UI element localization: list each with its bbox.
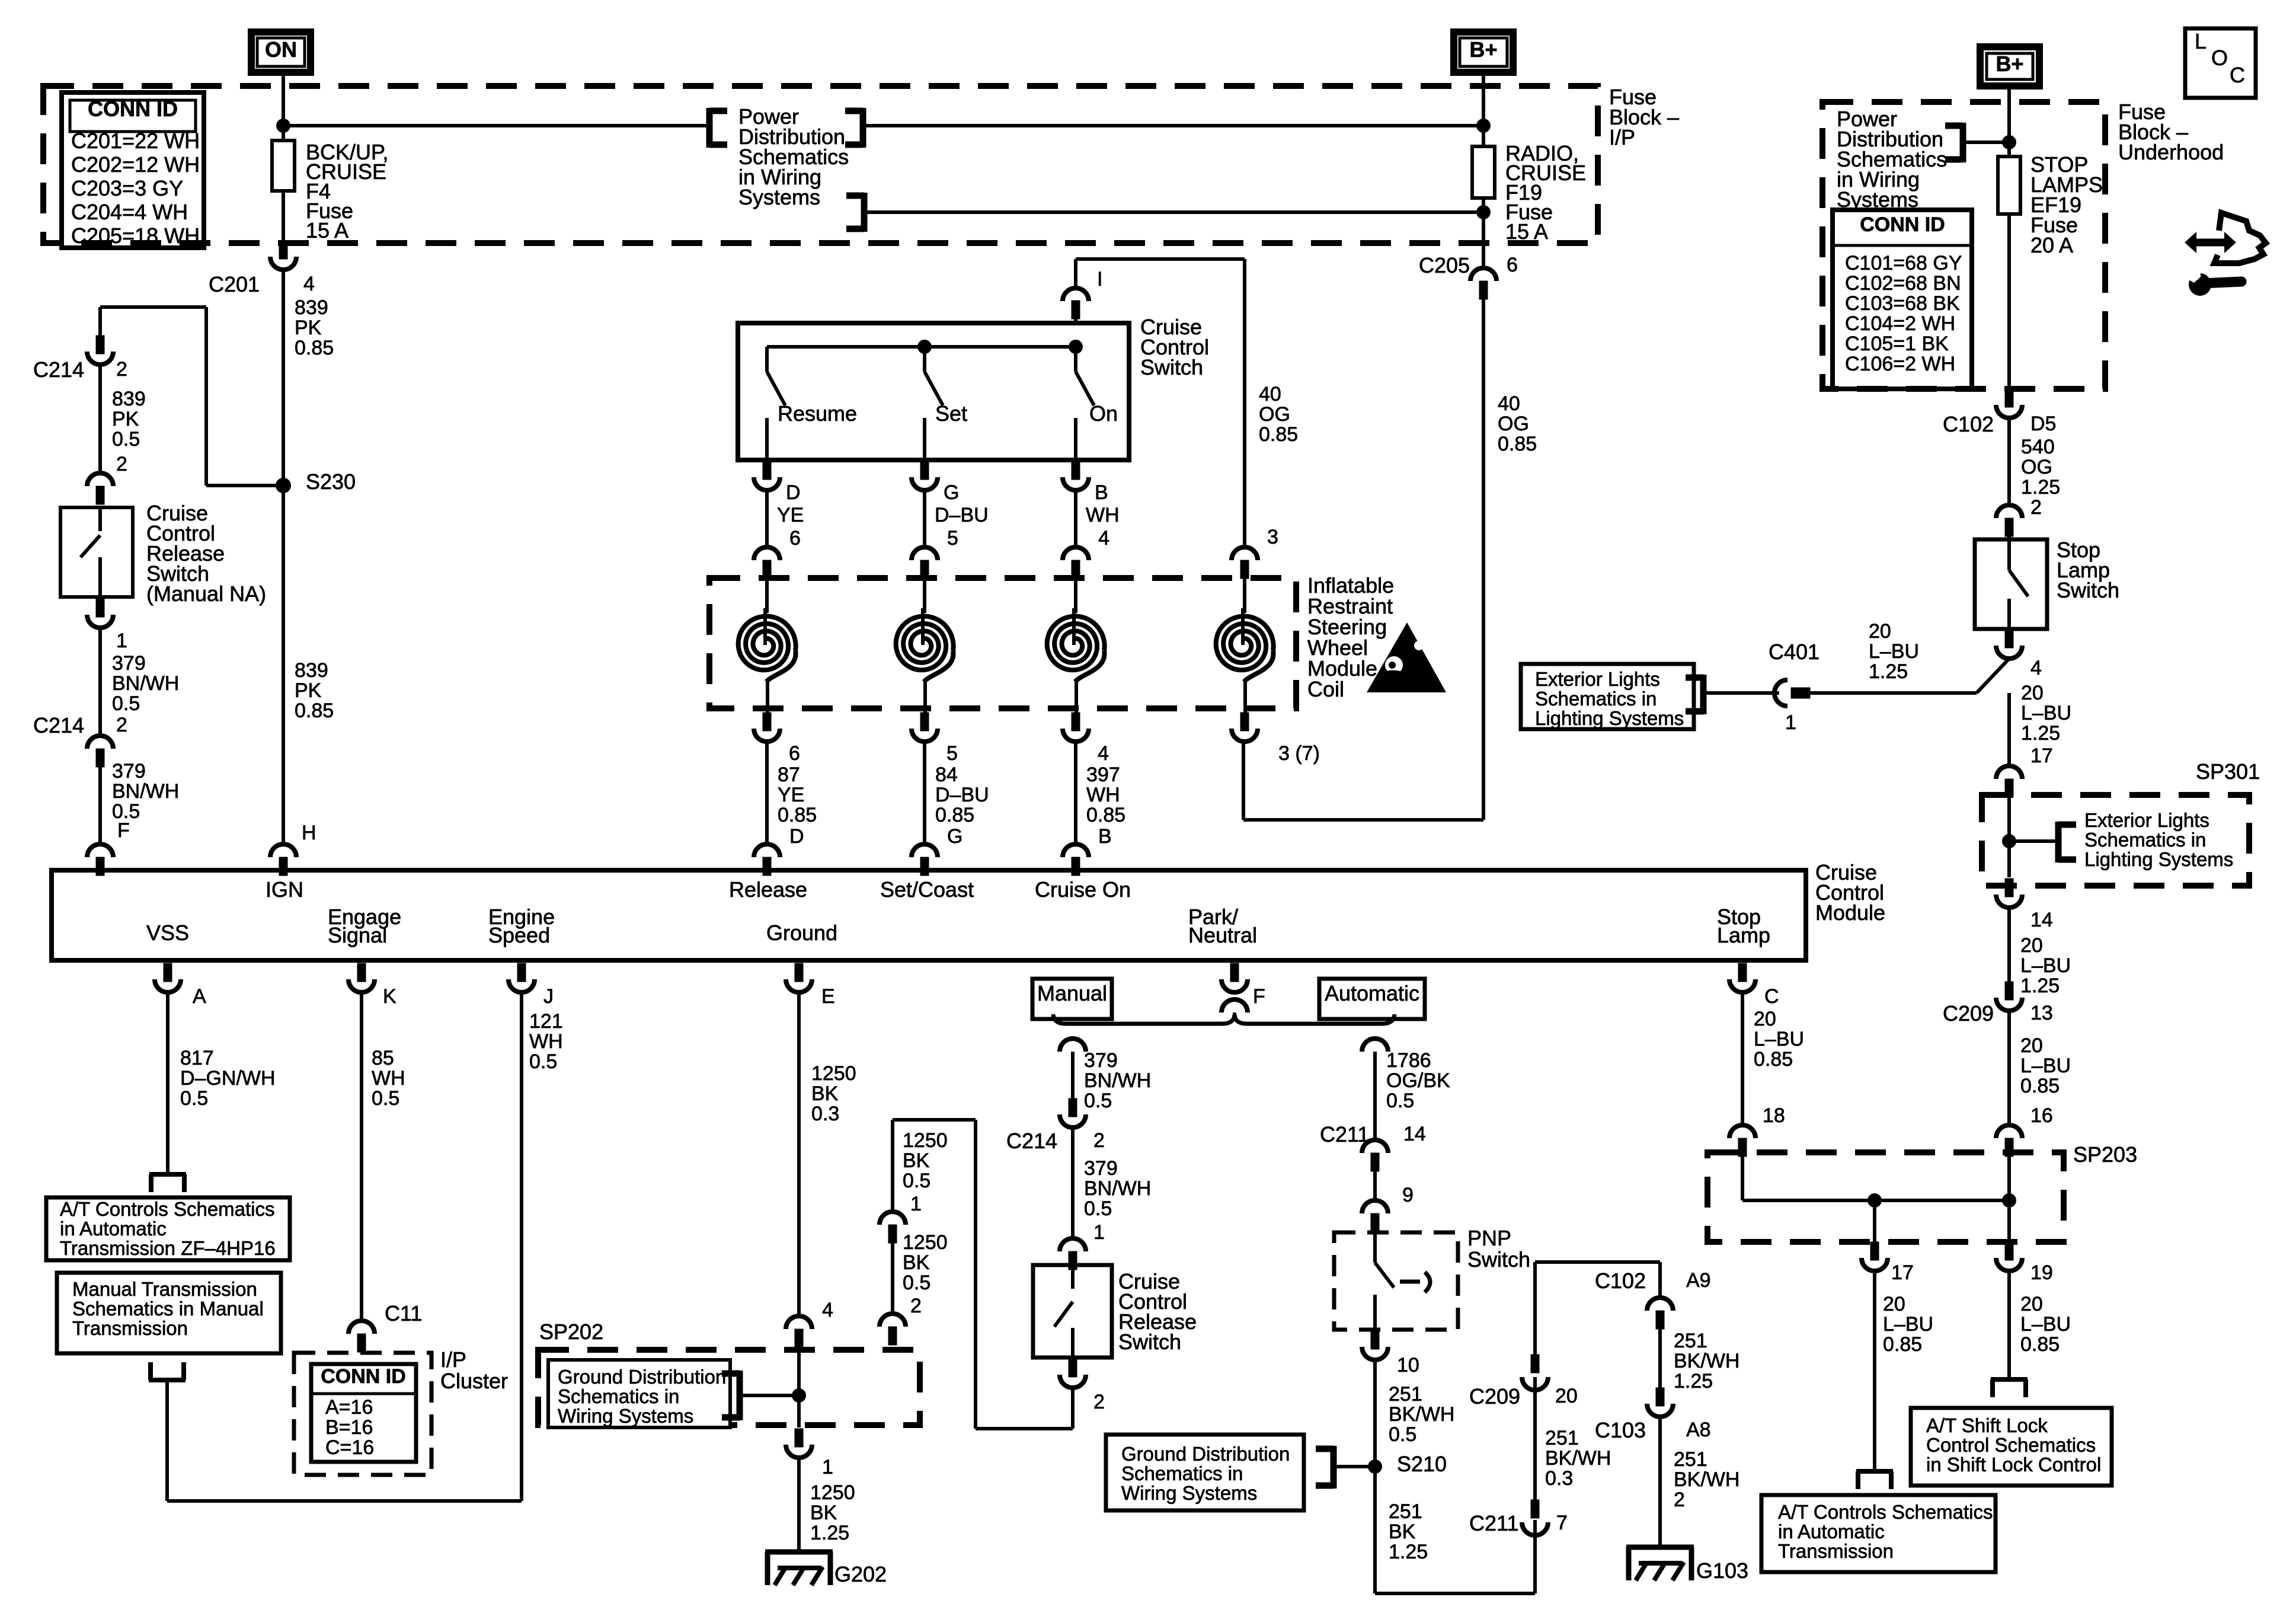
svg-text:SP203: SP203: [2073, 1142, 2137, 1167]
svg-text:Neutral: Neutral: [1188, 923, 1257, 947]
svg-text:C: C: [1764, 985, 1779, 1008]
svg-text:Switch: Switch: [1140, 355, 1203, 379]
svg-text:in Automatic: in Automatic: [1778, 1521, 1885, 1542]
svg-text:C204=4 WH: C204=4 WH: [71, 200, 188, 224]
svg-text:1250: 1250: [811, 1062, 856, 1085]
svg-text:251: 251: [1674, 1330, 1707, 1352]
svg-text:C106=2 WH: C106=2 WH: [1845, 353, 1955, 375]
svg-text:251: 251: [1674, 1448, 1707, 1471]
svg-text:(Manual NA): (Manual NA): [146, 582, 266, 606]
svg-text:C202=12 WH: C202=12 WH: [71, 152, 200, 177]
svg-text:C205: C205: [1419, 253, 1470, 277]
svg-text:L–BU: L–BU: [1869, 640, 1919, 663]
svg-text:Switch: Switch: [1118, 1330, 1181, 1354]
svg-text:D–GN/WH: D–GN/WH: [180, 1067, 276, 1090]
svg-text:20: 20: [2020, 1034, 2043, 1057]
svg-text:G: G: [947, 825, 962, 848]
svg-text:C104=2 WH: C104=2 WH: [1845, 312, 1955, 335]
svg-text:I/P: I/P: [1609, 125, 1635, 149]
svg-text:L–BU: L–BU: [2020, 1313, 2071, 1336]
svg-text:4: 4: [822, 1299, 833, 1321]
svg-text:20: 20: [1869, 620, 1891, 643]
svg-text:Automatic: Automatic: [1325, 981, 1419, 1005]
svg-text:BN/WH: BN/WH: [1084, 1177, 1151, 1200]
svg-text:85: 85: [372, 1047, 394, 1069]
svg-text:6: 6: [789, 527, 801, 550]
svg-text:C101=68 GY: C101=68 GY: [1845, 252, 1962, 274]
svg-text:1.25: 1.25: [1674, 1370, 1713, 1392]
svg-text:251: 251: [1389, 1500, 1422, 1523]
svg-text:397: 397: [1086, 764, 1120, 786]
svg-text:0.5: 0.5: [180, 1087, 208, 1110]
svg-text:4: 4: [303, 273, 315, 295]
svg-text:0.85: 0.85: [778, 804, 817, 826]
svg-text:C=16: C=16: [325, 1436, 374, 1459]
svg-text:F: F: [1253, 985, 1265, 1008]
svg-text:C211: C211: [1469, 1511, 1518, 1535]
svg-text:0.5: 0.5: [1386, 1090, 1414, 1112]
svg-text:15 A: 15 A: [306, 218, 348, 242]
svg-text:OG/BK: OG/BK: [1386, 1069, 1450, 1092]
svg-text:Set: Set: [935, 401, 967, 426]
svg-text:in Shift Lock Control: in Shift Lock Control: [1926, 1454, 2101, 1475]
svg-text:14: 14: [2030, 909, 2053, 931]
svg-text:1: 1: [910, 1193, 922, 1215]
svg-text:Ground Distribution: Ground Distribution: [558, 1366, 726, 1388]
svg-text:1786: 1786: [1386, 1049, 1431, 1072]
svg-text:6: 6: [789, 742, 800, 765]
svg-text:Speed: Speed: [488, 923, 550, 947]
svg-text:G: G: [944, 481, 959, 504]
svg-text:839: 839: [295, 659, 328, 682]
svg-text:PK: PK: [112, 408, 139, 430]
svg-text:18: 18: [1763, 1104, 1785, 1127]
svg-text:0.5: 0.5: [372, 1087, 399, 1110]
svg-text:0.5: 0.5: [112, 692, 140, 715]
svg-text:O: O: [2211, 46, 2228, 70]
svg-text:17: 17: [2030, 745, 2053, 767]
svg-text:40: 40: [1259, 383, 1281, 405]
svg-text:C214: C214: [33, 357, 84, 382]
svg-text:0.85: 0.85: [295, 700, 334, 722]
svg-text:20 A: 20 A: [2030, 233, 2073, 257]
svg-text:Underhood: Underhood: [2118, 140, 2224, 164]
svg-text:0.85: 0.85: [1883, 1333, 1922, 1356]
svg-text:2: 2: [1093, 1391, 1105, 1413]
svg-text:839: 839: [112, 388, 146, 410]
svg-text:Schematics in: Schematics in: [1535, 688, 1657, 710]
svg-text:Lamp: Lamp: [1717, 923, 1770, 947]
svg-text:BK/WH: BK/WH: [1674, 1468, 1739, 1491]
svg-text:YE: YE: [777, 504, 804, 526]
svg-text:251: 251: [1389, 1383, 1422, 1406]
svg-text:L–BU: L–BU: [2021, 702, 2071, 724]
svg-text:C201=22 WH: C201=22 WH: [71, 129, 200, 153]
svg-text:C102=68 BN: C102=68 BN: [1845, 272, 1961, 295]
svg-text:Manual Transmission: Manual Transmission: [72, 1278, 257, 1300]
svg-text:0.3: 0.3: [1545, 1467, 1573, 1490]
svg-text:Schematics in: Schematics in: [558, 1385, 679, 1407]
svg-text:H: H: [302, 822, 316, 844]
svg-text:Cruise On: Cruise On: [1035, 877, 1131, 902]
svg-text:Transmission: Transmission: [72, 1317, 188, 1339]
svg-text:PK: PK: [295, 317, 322, 339]
svg-text:84: 84: [935, 764, 958, 786]
svg-text:540: 540: [2021, 436, 2055, 458]
svg-text:C209: C209: [1943, 1001, 1994, 1026]
svg-text:PNP: PNP: [1467, 1226, 1511, 1250]
svg-text:2: 2: [1093, 1129, 1105, 1152]
svg-text:0.5: 0.5: [903, 1272, 930, 1294]
svg-text:L–BU: L–BU: [2020, 954, 2071, 977]
svg-text:CONN ID: CONN ID: [88, 97, 178, 121]
svg-text:0.5: 0.5: [112, 428, 140, 451]
svg-text:Exterior Lights: Exterior Lights: [1535, 668, 1660, 690]
svg-text:0.85: 0.85: [935, 804, 974, 826]
svg-text:BK: BK: [903, 1149, 930, 1172]
svg-text:B=16: B=16: [325, 1416, 373, 1439]
svg-text:10: 10: [1397, 1354, 1419, 1376]
svg-text:1.25: 1.25: [1389, 1541, 1428, 1563]
svg-text:B: B: [1098, 825, 1112, 848]
svg-text:A9: A9: [1686, 1269, 1711, 1292]
svg-text:87: 87: [778, 764, 800, 786]
svg-text:Signal: Signal: [328, 923, 387, 947]
svg-text:BN/WH: BN/WH: [112, 672, 179, 695]
svg-text:0.5: 0.5: [1084, 1197, 1112, 1220]
svg-text:20: 20: [1883, 1293, 1905, 1315]
svg-text:40: 40: [1498, 392, 1520, 415]
svg-text:15 A: 15 A: [1505, 219, 1548, 244]
svg-text:Schematics in: Schematics in: [2084, 829, 2206, 851]
svg-text:379: 379: [1084, 1049, 1118, 1072]
svg-text:B+: B+: [1469, 37, 1497, 62]
svg-text:1: 1: [1093, 1221, 1105, 1244]
svg-text:BK/WH: BK/WH: [1545, 1447, 1611, 1470]
svg-text:6: 6: [1507, 254, 1518, 276]
svg-text:2: 2: [116, 358, 127, 381]
svg-text:Resume: Resume: [778, 401, 857, 426]
svg-text:G103: G103: [1696, 1558, 1748, 1583]
svg-text:Cluster: Cluster: [440, 1369, 508, 1393]
svg-text:K: K: [383, 985, 396, 1008]
svg-text:C214: C214: [1006, 1129, 1057, 1153]
svg-text:1250: 1250: [903, 1231, 948, 1254]
svg-text:BN/WH: BN/WH: [112, 780, 179, 803]
svg-text:C103: C103: [1595, 1418, 1646, 1442]
svg-text:C102: C102: [1943, 412, 1994, 436]
svg-text:G202: G202: [834, 1562, 887, 1586]
svg-text:L: L: [2195, 29, 2207, 53]
svg-text:1: 1: [822, 1456, 833, 1478]
svg-text:0.3: 0.3: [811, 1103, 839, 1125]
svg-text:VSS: VSS: [146, 921, 189, 945]
svg-text:C105=1 BK: C105=1 BK: [1845, 333, 1949, 355]
svg-text:0.85: 0.85: [1754, 1048, 1793, 1071]
svg-text:Ground Distribution: Ground Distribution: [1121, 1443, 1290, 1465]
svg-text:4: 4: [1098, 742, 1109, 765]
svg-text:C211: C211: [1320, 1122, 1369, 1146]
svg-text:B+: B+: [1996, 52, 2023, 76]
svg-text:I/P: I/P: [440, 1347, 466, 1372]
svg-text:Transmission: Transmission: [1778, 1540, 1894, 1562]
svg-text:A=16: A=16: [325, 1396, 373, 1419]
svg-text:Systems: Systems: [738, 185, 820, 209]
svg-text:L–BU: L–BU: [1883, 1313, 1933, 1336]
svg-text:Wiring Systems: Wiring Systems: [558, 1405, 693, 1427]
svg-text:Ground: Ground: [766, 921, 837, 945]
svg-text:L–BU: L–BU: [1754, 1028, 1804, 1050]
svg-text:A/T Shift Lock: A/T Shift Lock: [1926, 1414, 2048, 1436]
svg-text:14: 14: [1403, 1123, 1426, 1145]
svg-text:0.5: 0.5: [529, 1050, 557, 1073]
svg-text:C: C: [2230, 63, 2245, 87]
svg-text:A/T Controls Schematics: A/T Controls Schematics: [60, 1198, 275, 1220]
svg-text:Set/Coast: Set/Coast: [880, 877, 974, 902]
svg-text:C102: C102: [1595, 1269, 1646, 1293]
svg-text:C103=68 BK: C103=68 BK: [1845, 292, 1960, 315]
svg-text:C209: C209: [1469, 1384, 1520, 1408]
svg-text:16: 16: [2030, 1104, 2053, 1127]
svg-text:C401: C401: [1769, 640, 1819, 664]
svg-text:CONN ID: CONN ID: [1860, 213, 1945, 236]
svg-text:Schematics in: Schematics in: [1121, 1462, 1243, 1484]
svg-text:Switch: Switch: [1467, 1247, 1530, 1272]
svg-text:D: D: [786, 481, 801, 504]
svg-text:YE: YE: [778, 784, 804, 806]
svg-text:3 (7): 3 (7): [1278, 742, 1320, 765]
svg-text:7: 7: [1556, 1512, 1568, 1534]
svg-text:E: E: [821, 985, 835, 1008]
svg-text:D–BU: D–BU: [935, 784, 989, 806]
svg-text:C11: C11: [385, 1301, 422, 1325]
svg-text:13: 13: [2030, 1002, 2053, 1024]
svg-text:379: 379: [112, 652, 146, 675]
svg-text:A8: A8: [1686, 1419, 1711, 1441]
svg-text:Release: Release: [729, 877, 807, 902]
svg-text:D5: D5: [2030, 413, 2056, 435]
svg-text:20: 20: [1754, 1008, 1776, 1030]
svg-text:On: On: [1089, 401, 1118, 426]
svg-text:0.85: 0.85: [1086, 804, 1125, 826]
svg-text:WH: WH: [1086, 504, 1120, 526]
svg-text:Switch: Switch: [2057, 578, 2119, 602]
svg-text:WH: WH: [372, 1067, 405, 1090]
svg-text:1250: 1250: [810, 1481, 855, 1504]
svg-text:A: A: [193, 985, 206, 1008]
svg-text:0.85: 0.85: [2020, 1333, 2060, 1356]
svg-text:1.25: 1.25: [810, 1522, 849, 1544]
svg-text:B: B: [1095, 481, 1108, 504]
svg-text:BK: BK: [810, 1502, 837, 1524]
svg-text:1: 1: [116, 630, 127, 652]
svg-text:121: 121: [529, 1010, 563, 1033]
svg-text:839: 839: [295, 296, 328, 319]
svg-text:Manual: Manual: [1037, 981, 1107, 1005]
svg-text:1.25: 1.25: [2021, 722, 2060, 745]
svg-text:D: D: [789, 825, 804, 848]
svg-text:BK: BK: [811, 1082, 839, 1105]
svg-text:0.85: 0.85: [295, 337, 334, 359]
svg-text:Lighting Systems: Lighting Systems: [1535, 707, 1684, 729]
svg-text:Exterior Lights: Exterior Lights: [2084, 809, 2209, 831]
svg-text:379: 379: [112, 760, 146, 782]
svg-text:I: I: [1097, 268, 1102, 290]
svg-text:OG: OG: [2021, 456, 2052, 478]
svg-text:19: 19: [2030, 1261, 2053, 1284]
svg-text:L–BU: L–BU: [2020, 1055, 2071, 1077]
svg-text:SP301: SP301: [2196, 759, 2260, 784]
svg-text:1.25: 1.25: [2020, 975, 2060, 997]
svg-text:A/T Controls Schematics: A/T Controls Schematics: [1778, 1501, 1993, 1523]
svg-text:C205=18 WH: C205=18 WH: [71, 223, 200, 248]
svg-text:WH: WH: [1086, 784, 1120, 806]
svg-text:BK/WH: BK/WH: [1389, 1403, 1454, 1426]
svg-text:9: 9: [1402, 1184, 1414, 1206]
svg-text:0.5: 0.5: [1084, 1090, 1112, 1112]
svg-text:20: 20: [2020, 934, 2043, 957]
svg-text:IGN: IGN: [266, 877, 303, 902]
svg-text:5: 5: [946, 742, 958, 765]
svg-text:2: 2: [1674, 1489, 1685, 1511]
svg-text:2: 2: [116, 453, 127, 475]
svg-text:Schematics in Manual: Schematics in Manual: [72, 1298, 264, 1320]
svg-text:Coil: Coil: [1307, 677, 1344, 701]
svg-text:Lighting Systems: Lighting Systems: [2084, 848, 2233, 870]
svg-text:817: 817: [180, 1047, 214, 1069]
svg-text:D–BU: D–BU: [935, 504, 989, 526]
svg-text:1250: 1250: [903, 1129, 948, 1152]
svg-text:17: 17: [1891, 1261, 1914, 1284]
svg-text:F: F: [117, 819, 130, 842]
svg-text:1.25: 1.25: [2021, 476, 2060, 499]
svg-text:WH: WH: [529, 1030, 563, 1053]
svg-text:5: 5: [947, 527, 958, 550]
svg-text:20: 20: [1555, 1385, 1578, 1407]
svg-text:3: 3: [1267, 526, 1278, 548]
svg-text:CONN ID: CONN ID: [321, 1365, 406, 1388]
svg-text:C203=3 GY: C203=3 GY: [71, 176, 183, 200]
svg-text:SP202: SP202: [539, 1320, 603, 1344]
svg-text:C201: C201: [209, 272, 260, 296]
svg-text:2: 2: [116, 714, 127, 736]
svg-text:0.85: 0.85: [2020, 1075, 2060, 1097]
svg-text:in Automatic: in Automatic: [60, 1218, 167, 1240]
svg-text:J: J: [543, 985, 554, 1008]
svg-text:S210: S210: [1397, 1452, 1447, 1476]
svg-text:BK: BK: [1389, 1521, 1416, 1543]
svg-text:C214: C214: [33, 713, 84, 737]
svg-text:OG: OG: [1498, 413, 1529, 435]
svg-text:BK: BK: [903, 1251, 930, 1274]
svg-text:2: 2: [2030, 496, 2042, 519]
svg-text:OG: OG: [1259, 403, 1290, 426]
svg-text:251: 251: [1545, 1427, 1579, 1449]
svg-text:Transmission ZF–4HP16: Transmission ZF–4HP16: [60, 1237, 276, 1259]
svg-text:20: 20: [2021, 682, 2044, 704]
svg-text:1.25: 1.25: [1869, 660, 1908, 683]
svg-text:Wiring Systems: Wiring Systems: [1121, 1482, 1257, 1504]
svg-text:20: 20: [2020, 1293, 2043, 1315]
svg-text:Module: Module: [1815, 900, 1885, 925]
svg-text:379: 379: [1084, 1157, 1118, 1180]
svg-text:0.5: 0.5: [903, 1170, 930, 1192]
svg-text:4: 4: [1098, 527, 1109, 550]
svg-text:0.85: 0.85: [1259, 423, 1298, 446]
svg-text:BK/WH: BK/WH: [1674, 1350, 1739, 1372]
svg-text:0.85: 0.85: [1498, 433, 1537, 455]
svg-text:S230: S230: [306, 469, 356, 494]
svg-text:0.5: 0.5: [1389, 1423, 1416, 1446]
svg-text:2: 2: [910, 1295, 922, 1317]
svg-text:1: 1: [1785, 711, 1796, 734]
svg-text:ON: ON: [265, 37, 297, 62]
svg-text:Control Schematics: Control Schematics: [1926, 1434, 2096, 1456]
svg-text:BN/WH: BN/WH: [1084, 1069, 1151, 1092]
svg-text:4: 4: [2030, 657, 2042, 679]
svg-text:PK: PK: [295, 679, 322, 702]
